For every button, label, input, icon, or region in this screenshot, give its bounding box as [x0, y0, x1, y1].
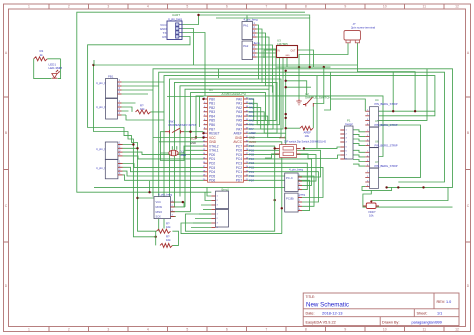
svg-text:12: 12	[455, 327, 459, 331]
svg-text:9: 9	[344, 5, 346, 9]
svg-text:8: 8	[305, 5, 307, 9]
svg-text:U6: U6	[375, 140, 379, 144]
wire VCC row to band	[153, 137, 204, 139]
wire PD0 connector cascade to IC	[123, 164, 204, 168]
svg-text:PD6: PD6	[209, 179, 215, 183]
wire LM7805 in/out	[264, 50, 277, 58]
svg-text:PB1: PB1	[108, 75, 114, 79]
svg-text:DIP switch,Dip Switch,DSIW802L: DIP switch,Dip Switch,DSIW802LHS	[284, 140, 326, 144]
wire P1 pins to berg strip	[353, 130, 365, 132]
frame zone ticks top	[49, 4, 444, 9]
svg-text:SAMPLE_SWITCH: SAMPLE_SWITCH	[305, 96, 331, 100]
svg-text:U5: U5	[375, 119, 379, 123]
wire IC right lower rows to PC-B connector	[248, 167, 324, 197]
svg-text:5: 5	[186, 327, 188, 331]
svg-text:4_pin_berg: 4_pin_berg	[289, 168, 303, 172]
wire left inner staircase to PD1	[94, 65, 134, 145]
wire sample switch right leg	[313, 67, 324, 103]
svg-text:AREF: AREF	[249, 131, 256, 135]
wire crystal loops	[161, 152, 185, 154]
svg-text:PD7: PD7	[236, 179, 242, 183]
svg-text:PIN_BERG_STRIP: PIN_BERG_STRIP	[375, 102, 398, 106]
svg-text:Sheet:: Sheet:	[417, 312, 428, 316]
svg-text:PA7: PA7	[249, 127, 254, 131]
junction gnd rail	[298, 66, 300, 68]
svg-text:U4: U4	[375, 98, 379, 102]
junction dip switch	[274, 147, 276, 149]
svg-text:OUT: OUT	[291, 51, 296, 53]
junction PD1 wires	[132, 143, 134, 145]
wire regulator gnd pin	[286, 58, 288, 68]
wire top band stub	[218, 69, 220, 78]
svg-text:PC5: PC5	[249, 153, 255, 157]
frame zone ticks left	[4, 97, 9, 242]
svg-text:2: 2	[68, 5, 70, 9]
svg-text:5: 5	[186, 5, 188, 9]
svg-text:1.0: 1.0	[446, 300, 451, 304]
svg-text:VCC: VCC	[190, 137, 196, 141]
wire IC left pin stubs	[204, 98, 208, 100]
svg-text:PIN_BERG_STRIP: PIN_BERG_STRIP	[375, 143, 398, 147]
wire berg1/2 left pins	[191, 187, 211, 227]
svg-text:U1: U1	[209, 88, 213, 92]
junction UART net	[197, 14, 199, 16]
svg-text:3: 3	[107, 5, 109, 9]
svg-text:AVCC: AVCC	[249, 140, 256, 144]
svg-text:PIN_BERG_STRIP: PIN_BERG_STRIP	[375, 164, 398, 168]
wire AREF resistor wires	[286, 127, 300, 129]
svg-text:PC6: PC6	[249, 148, 255, 152]
wire dip switch right to P1	[304, 147, 340, 148]
svg-text:PC(B): PC(B)	[286, 197, 294, 201]
wire ISP connector stubs	[171, 202, 191, 216]
wire SW1 to IC reset	[184, 131, 204, 133]
junction reset	[189, 131, 191, 133]
svg-text:4: 4	[147, 327, 149, 331]
svg-text:10: 10	[383, 5, 387, 9]
svg-text:10: 10	[383, 327, 387, 331]
svg-text:Drawn By:: Drawn By:	[382, 320, 400, 324]
svg-text:ATMEGA16A-PU: ATMEGA16A-PU	[222, 92, 247, 96]
svg-text:PA5: PA5	[249, 118, 254, 122]
junction left loop	[92, 64, 94, 66]
trimmer POT 10k	[366, 203, 376, 209]
junction right-of-IC vertical	[285, 70, 287, 72]
wire IC right pin stubs	[244, 98, 248, 100]
svg-text:1/1: 1/1	[437, 312, 442, 316]
svg-text:11: 11	[423, 327, 427, 331]
svg-text:MISO: MISO	[156, 210, 163, 214]
junction ISP	[182, 201, 184, 203]
wire IC right staircase PA rows	[248, 99, 266, 120]
svg-text:9: 9	[344, 327, 346, 331]
wire right loop inner	[374, 125, 421, 177]
svg-text:1: 1	[28, 5, 30, 9]
title block	[303, 293, 459, 326]
svg-text:PC1: PC1	[249, 170, 255, 174]
wire ISP top link	[138, 197, 155, 199]
svg-text:3: 3	[107, 327, 109, 331]
wire UART pin stubs	[182, 15, 199, 25]
svg-text:10k: 10k	[166, 238, 171, 242]
svg-text:REV:: REV:	[437, 300, 446, 304]
wire band inner lines	[196, 96, 383, 157]
wire berg strip pin rail top	[374, 110, 435, 112]
svg-text:2: 2	[68, 327, 70, 331]
svg-text:GND: GND	[249, 136, 255, 140]
junction PC-B feeds	[274, 199, 276, 201]
svg-text:RX: RX	[162, 35, 166, 39]
svg-text:PA4: PA4	[249, 114, 254, 118]
svg-text:GND: GND	[285, 55, 290, 57]
svg-text:7: 7	[265, 5, 267, 9]
svg-text:4: 4	[147, 5, 149, 9]
svg-text:TITLE:: TITLE:	[306, 295, 316, 299]
wire UART pin4 staircase to PD1	[88, 37, 190, 149]
junction IC left pins	[202, 132, 204, 134]
svg-text:PA1: PA1	[249, 101, 254, 105]
frame zone ticks right	[466, 97, 471, 242]
wire gnd rail under regulator	[277, 66, 331, 68]
wire AREF and GND rows	[248, 132, 286, 134]
wire long horizontals lower	[94, 186, 285, 188]
svg-text:PA1: PA1	[243, 24, 249, 28]
svg-text:MOSI: MOSI	[156, 205, 163, 209]
svg-text:U7: U7	[375, 160, 379, 164]
svg-text:PA2: PA2	[243, 44, 249, 48]
wire screw terminal pins	[299, 43, 348, 99]
wire PA header drops	[257, 25, 259, 79]
wire left outer loop	[77, 12, 305, 192]
wire dip switch lower left	[265, 154, 275, 158]
svg-text:PA2: PA2	[249, 106, 254, 110]
svg-text:paragsangtani999: paragsangtani999	[412, 320, 442, 324]
svg-text:SCK: SCK	[156, 215, 162, 219]
svg-text:dsw1: dsw1	[279, 136, 286, 140]
wire top band 3	[216, 18, 310, 67]
svg-text:EasyEDA V5.9.22: EasyEDA V5.9.22	[306, 320, 336, 324]
svg-text:PA3: PA3	[249, 110, 254, 114]
wire resistor pair loop	[149, 181, 151, 192]
svg-text:10k: 10k	[305, 134, 310, 138]
svg-text:PA0: PA0	[249, 97, 254, 101]
resistor R2 AREF 10k	[300, 126, 313, 130]
wire left loop to PB area	[93, 60, 95, 65]
svg-text:LED-3MM: LED-3MM	[49, 66, 63, 70]
svg-text:12: 12	[455, 5, 459, 9]
svg-text:6: 6	[226, 5, 228, 9]
svg-text:PC-C: PC-C	[286, 176, 293, 180]
wire PD1 connector cascade to IC	[123, 145, 156, 237]
svg-text:PD7: PD7	[249, 178, 255, 182]
svg-text:4_pin_berg: 4_pin_berg	[158, 193, 172, 197]
wire GND row to band	[159, 141, 204, 143]
svg-text:1: 1	[28, 327, 30, 331]
wire PC-B loop down-left	[185, 148, 274, 231]
svg-text:7: 7	[265, 327, 267, 331]
svg-text:PC7: PC7	[249, 144, 255, 148]
svg-text:Date:: Date:	[306, 312, 315, 316]
svg-text:10k: 10k	[369, 213, 374, 217]
svg-text:PC3: PC3	[249, 161, 255, 165]
svg-text:IN: IN	[278, 51, 281, 53]
svg-text:PC0: PC0	[249, 174, 255, 178]
svg-text:2pin screw terminal: 2pin screw terminal	[351, 26, 375, 30]
svg-text:PIN_BERG_STRIP: PIN_BERG_STRIP	[375, 123, 398, 127]
svg-text:4_pin_berg: 4_pin_berg	[244, 18, 258, 22]
ground sample switch	[296, 99, 301, 105]
svg-text:PC2: PC2	[249, 166, 255, 170]
svg-text:VCC: VCC	[156, 200, 162, 204]
wire top band 1	[199, 15, 310, 18]
svg-text:6: 6	[226, 327, 228, 331]
wire mid band bundle left of IC	[94, 64, 358, 66]
svg-text:PA6: PA6	[249, 123, 254, 127]
svg-text:MOMENTARY-SPST: MOMENTARY-SPST	[169, 123, 197, 127]
frame zone ticks bottom	[49, 327, 444, 332]
svg-text:berg2: berg2	[346, 122, 354, 126]
svg-text:1k: 1k	[40, 53, 44, 57]
LED LED1 loop wire	[34, 59, 61, 79]
svg-text:4MB: 4MB	[180, 153, 186, 157]
junction berg strip loops	[392, 110, 394, 112]
svg-text:10k: 10k	[166, 225, 171, 229]
wire PB connectors to band	[122, 82, 165, 94]
wire trimmer loop	[363, 190, 371, 207]
svg-text:New Schematic: New Schematic	[306, 301, 349, 308]
wire SW1 left leg	[161, 132, 204, 161]
svg-text:GND: GND	[190, 141, 196, 145]
svg-text:8: 8	[305, 327, 307, 331]
svg-text:PC4: PC4	[249, 157, 255, 161]
svg-text:11: 11	[423, 5, 427, 9]
svg-text:2018-12-13: 2018-12-13	[322, 311, 343, 316]
